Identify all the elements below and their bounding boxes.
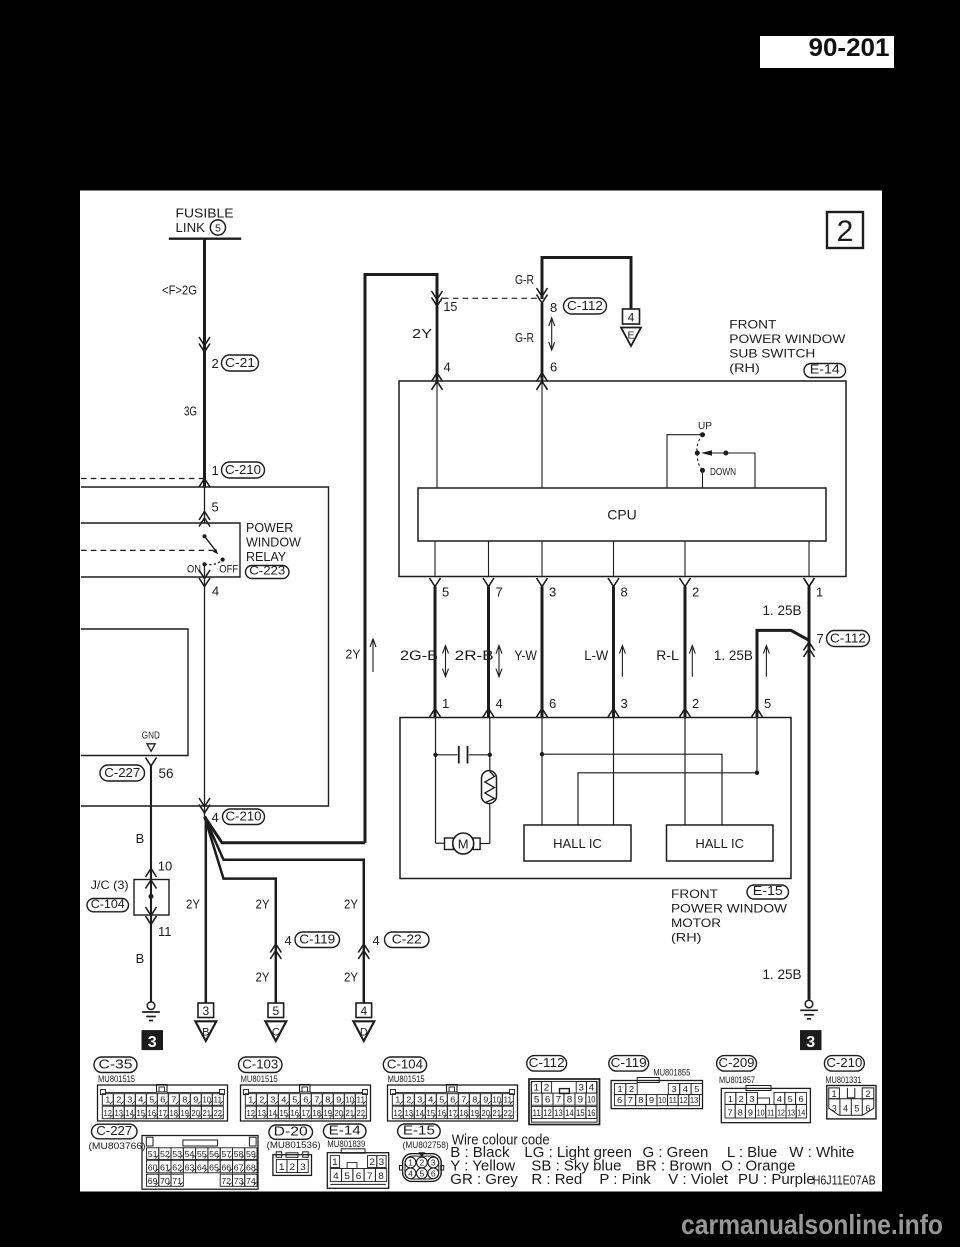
svg-text:90-201: 90-201 [809, 34, 890, 62]
svg-text:C-112: C-112 [830, 632, 866, 646]
svg-text:14: 14 [798, 1109, 806, 1118]
svg-text:C-210: C-210 [826, 1055, 862, 1070]
svg-text:1: 1 [248, 1096, 254, 1105]
svg-text:V : Violet: V : Violet [668, 1171, 729, 1188]
svg-text:5: 5 [212, 500, 219, 515]
svg-text:8: 8 [325, 1096, 331, 1105]
svg-text:(MU803766): (MU803766) [89, 1141, 146, 1151]
svg-text:6: 6 [798, 1095, 804, 1104]
svg-text:7: 7 [728, 1109, 734, 1118]
svg-text:7: 7 [314, 1096, 320, 1105]
svg-text:1: 1 [395, 1096, 401, 1105]
svg-text:7: 7 [461, 1096, 467, 1105]
svg-text:2: 2 [212, 356, 219, 371]
svg-text:D: D [360, 1027, 368, 1039]
svg-text:C-119: C-119 [299, 933, 335, 947]
svg-text:(MU801536): (MU801536) [267, 1140, 321, 1150]
svg-text:1: 1 [618, 1085, 624, 1094]
svg-text:B: B [136, 831, 145, 846]
svg-text:13: 13 [690, 1096, 699, 1105]
svg-text:2: 2 [629, 1085, 635, 1094]
svg-text:3: 3 [749, 1095, 755, 1104]
svg-text:P : Pink: P : Pink [599, 1171, 651, 1188]
svg-text:C-209: C-209 [719, 1055, 755, 1070]
svg-text:2: 2 [369, 1157, 375, 1167]
svg-text:6: 6 [450, 1096, 456, 1105]
svg-text:GND: GND [142, 730, 160, 742]
svg-text:5: 5 [215, 222, 221, 234]
svg-text:8: 8 [378, 1171, 384, 1181]
svg-text:M: M [458, 837, 469, 852]
svg-text:C-104: C-104 [91, 897, 125, 911]
svg-text:7: 7 [817, 631, 824, 646]
svg-text:10: 10 [158, 858, 172, 873]
svg-text:2: 2 [739, 1095, 745, 1104]
svg-text:E-15: E-15 [753, 884, 783, 898]
svg-text:15: 15 [443, 299, 457, 314]
svg-text:9: 9 [748, 1109, 754, 1118]
svg-text:C-112: C-112 [529, 1055, 565, 1070]
svg-text:2Y: 2Y [412, 326, 432, 341]
svg-text:15: 15 [576, 1108, 585, 1118]
svg-text:(MU802758): (MU802758) [403, 1140, 449, 1150]
svg-text:5: 5 [344, 1171, 350, 1181]
svg-text:10: 10 [658, 1096, 667, 1105]
svg-text:1: 1 [728, 1095, 734, 1104]
svg-text:8: 8 [472, 1096, 478, 1105]
svg-text:4: 4 [373, 933, 380, 948]
svg-text:10: 10 [757, 1109, 765, 1118]
svg-text:3: 3 [148, 1034, 157, 1051]
svg-text:6: 6 [303, 1096, 309, 1105]
svg-text:3: 3 [579, 1083, 585, 1093]
svg-text:1: 1 [212, 463, 219, 478]
svg-text:2Y: 2Y [186, 897, 200, 912]
svg-text:2Y: 2Y [346, 647, 361, 662]
svg-text:3: 3 [549, 585, 556, 600]
svg-text:2: 2 [544, 1083, 550, 1093]
svg-text:HALL IC: HALL IC [553, 836, 602, 851]
svg-text:5: 5 [442, 585, 449, 600]
svg-text:2: 2 [837, 215, 854, 248]
svg-text:G-R: G-R [515, 272, 534, 287]
svg-text:4: 4 [628, 311, 635, 325]
svg-text:7: 7 [367, 1171, 373, 1181]
svg-text:11: 11 [669, 1096, 678, 1105]
svg-text:LINK: LINK [176, 221, 206, 235]
svg-text:10: 10 [587, 1095, 596, 1105]
svg-text:12: 12 [679, 1096, 688, 1105]
svg-text:PU : Purple: PU : Purple [738, 1171, 815, 1188]
svg-text:8: 8 [621, 585, 628, 600]
svg-text:1: 1 [832, 1089, 837, 1099]
svg-text:C-119: C-119 [611, 1055, 647, 1070]
svg-text:3: 3 [671, 1085, 677, 1094]
svg-text:MU801515: MU801515 [98, 1074, 135, 1084]
svg-text:R-L: R-L [656, 648, 679, 663]
svg-text:4: 4 [212, 584, 219, 599]
svg-text:1. 25B: 1. 25B [763, 603, 802, 618]
svg-text:3: 3 [379, 1157, 385, 1167]
svg-text:3: 3 [127, 1096, 133, 1105]
svg-text:4: 4 [333, 1171, 339, 1181]
svg-text:2Y: 2Y [344, 970, 358, 985]
svg-text:8: 8 [182, 1096, 188, 1105]
svg-text:C-103: C-103 [242, 1057, 278, 1072]
svg-text:4: 4 [777, 1095, 783, 1104]
svg-text:6: 6 [545, 1095, 551, 1105]
svg-text:1: 1 [279, 1162, 285, 1172]
svg-text:13: 13 [787, 1109, 795, 1118]
svg-text:2Y: 2Y [256, 897, 270, 912]
svg-text:11: 11 [532, 1108, 541, 1118]
svg-text:4: 4 [285, 933, 292, 948]
svg-text:UP: UP [698, 420, 712, 432]
svg-text:7: 7 [171, 1096, 177, 1105]
svg-text:3: 3 [806, 1034, 815, 1051]
svg-text:HALL IC: HALL IC [695, 836, 744, 851]
svg-text:5: 5 [854, 1103, 859, 1113]
svg-text:13: 13 [554, 1108, 563, 1118]
svg-text:8: 8 [550, 300, 557, 315]
svg-text:2: 2 [259, 1096, 265, 1105]
svg-text:WINDOW: WINDOW [246, 536, 301, 550]
svg-text:POWER WINDOW: POWER WINDOW [671, 902, 788, 916]
svg-text:3: 3 [270, 1096, 276, 1105]
svg-text:OFF: OFF [219, 564, 238, 576]
svg-text:(RH): (RH) [671, 931, 702, 945]
svg-text:C-21: C-21 [225, 356, 255, 370]
svg-text:J/C (3): J/C (3) [91, 878, 129, 892]
svg-text:R : Red: R : Red [531, 1171, 582, 1188]
svg-text:5: 5 [149, 1096, 155, 1105]
svg-text:MU801515: MU801515 [241, 1074, 278, 1084]
svg-text:2R-B: 2R-B [455, 648, 494, 663]
svg-text:4: 4 [496, 696, 503, 711]
svg-text:3G: 3G [184, 404, 197, 419]
svg-text:7: 7 [556, 1095, 562, 1105]
svg-text:4: 4 [683, 1085, 689, 1094]
svg-text:B: B [136, 951, 145, 966]
svg-text:(RH): (RH) [729, 361, 760, 375]
svg-text:<F>2G: <F>2G [162, 283, 197, 298]
svg-text:MU801855: MU801855 [653, 1067, 690, 1077]
svg-text:SUB SWITCH: SUB SWITCH [729, 347, 815, 361]
svg-text:4: 4 [360, 1004, 367, 1018]
svg-text:C-22: C-22 [392, 933, 422, 947]
svg-text:1. 25B: 1. 25B [714, 648, 753, 663]
svg-text:2Y: 2Y [256, 970, 270, 985]
svg-text:C-112: C-112 [567, 299, 603, 313]
svg-text:3: 3 [621, 696, 628, 711]
svg-text:4: 4 [843, 1103, 848, 1113]
svg-text:2: 2 [116, 1096, 122, 1105]
svg-text:G-R: G-R [515, 330, 534, 345]
svg-text:6: 6 [617, 1096, 623, 1105]
svg-text:FUSIBLE: FUSIBLE [176, 207, 234, 221]
svg-text:MU801857: MU801857 [719, 1075, 755, 1085]
svg-text:Y-W: Y-W [514, 648, 537, 663]
svg-text:5: 5 [694, 1085, 700, 1094]
svg-text:1: 1 [105, 1096, 111, 1105]
svg-text:L-W: L-W [584, 648, 608, 663]
svg-text:2G-B: 2G-B [400, 648, 438, 663]
svg-text:9: 9 [193, 1096, 199, 1105]
svg-text:6: 6 [431, 1168, 436, 1178]
svg-text:2: 2 [420, 1158, 425, 1168]
svg-text:6: 6 [356, 1171, 362, 1181]
svg-text:DOWN: DOWN [710, 466, 736, 478]
svg-text:C-35: C-35 [99, 1057, 133, 1072]
svg-text:5: 5 [788, 1095, 794, 1104]
svg-text:C-227: C-227 [96, 1123, 132, 1138]
svg-text:D-20: D-20 [274, 1123, 308, 1138]
svg-text:2: 2 [866, 1089, 871, 1099]
svg-text:1. 25B: 1. 25B [763, 967, 802, 982]
svg-text:E-14: E-14 [329, 1122, 361, 1137]
svg-text:RELAY: RELAY [246, 550, 287, 564]
svg-text:1: 1 [534, 1083, 540, 1093]
svg-text:4: 4 [138, 1096, 144, 1105]
svg-text:14: 14 [565, 1108, 574, 1118]
svg-text:5: 5 [420, 1168, 425, 1178]
svg-text:4: 4 [428, 1096, 434, 1105]
svg-text:11: 11 [767, 1109, 775, 1118]
svg-text:2: 2 [289, 1162, 295, 1172]
svg-text:POWER: POWER [246, 521, 293, 535]
svg-text:2: 2 [406, 1096, 412, 1105]
svg-text:E-15: E-15 [403, 1122, 435, 1137]
svg-text:4: 4 [212, 810, 219, 825]
svg-text:1: 1 [408, 1158, 413, 1168]
svg-text:1: 1 [442, 696, 449, 711]
svg-text:4: 4 [444, 360, 451, 375]
svg-text:5: 5 [292, 1096, 298, 1105]
svg-text:C-210: C-210 [226, 810, 262, 824]
svg-text:5: 5 [764, 696, 771, 711]
svg-text:FRONT: FRONT [729, 318, 777, 332]
svg-text:MU801515: MU801515 [388, 1074, 425, 1084]
svg-text:B: B [202, 1027, 209, 1039]
svg-text:3: 3 [431, 1158, 436, 1168]
svg-text:56: 56 [159, 766, 174, 781]
svg-text:W : White: W : White [789, 1144, 854, 1161]
svg-text:C-223: C-223 [249, 564, 285, 578]
svg-text:4: 4 [281, 1096, 287, 1105]
svg-text:2Y: 2Y [344, 897, 358, 912]
svg-text:2: 2 [692, 585, 699, 600]
svg-text:8: 8 [567, 1095, 573, 1105]
svg-text:9: 9 [336, 1096, 342, 1105]
svg-text:C-104: C-104 [387, 1057, 423, 1072]
svg-text:C-227: C-227 [104, 766, 140, 780]
svg-text:7: 7 [496, 585, 503, 600]
svg-text:12: 12 [543, 1108, 552, 1118]
svg-text:4: 4 [589, 1083, 595, 1093]
svg-text:8: 8 [638, 1096, 644, 1105]
svg-text:11: 11 [158, 924, 172, 939]
svg-text:MU801839: MU801839 [327, 1139, 365, 1149]
svg-text:5: 5 [534, 1095, 540, 1105]
svg-text:9: 9 [578, 1095, 584, 1105]
svg-text:MOTOR: MOTOR [671, 916, 721, 930]
svg-text:5: 5 [272, 1004, 279, 1018]
svg-text:7: 7 [628, 1096, 634, 1105]
svg-text:3: 3 [202, 1004, 209, 1018]
svg-text:POWER WINDOW: POWER WINDOW [729, 332, 846, 346]
svg-text:1: 1 [332, 1157, 338, 1167]
svg-text:MU801331: MU801331 [825, 1075, 861, 1085]
svg-text:3: 3 [300, 1162, 306, 1172]
svg-text:6: 6 [160, 1096, 166, 1105]
svg-text:ON: ON [187, 564, 201, 576]
svg-text:1: 1 [816, 585, 823, 600]
svg-text:H6J11E07AB: H6J11E07AB [813, 1174, 876, 1188]
svg-text:9: 9 [483, 1096, 489, 1105]
svg-text:GR : Grey: GR : Grey [450, 1171, 518, 1188]
svg-text:C: C [272, 1027, 280, 1039]
svg-text:8: 8 [738, 1109, 744, 1118]
svg-text:E: E [627, 330, 634, 342]
svg-text:FRONT: FRONT [671, 887, 719, 901]
svg-text:CPU: CPU [607, 507, 637, 523]
svg-text:3: 3 [417, 1096, 423, 1105]
svg-text:2: 2 [692, 696, 699, 711]
svg-text:6: 6 [550, 360, 557, 375]
svg-text:12: 12 [777, 1109, 785, 1118]
svg-text:E-14: E-14 [810, 363, 840, 377]
svg-text:C-210: C-210 [225, 463, 261, 477]
svg-text:6: 6 [549, 696, 556, 711]
svg-text:5: 5 [439, 1096, 445, 1105]
svg-text:16: 16 [587, 1108, 596, 1118]
svg-text:carmanualsonline.info: carmanualsonline.info [681, 1209, 943, 1240]
svg-text:4: 4 [408, 1168, 413, 1178]
svg-text:9: 9 [649, 1096, 655, 1105]
